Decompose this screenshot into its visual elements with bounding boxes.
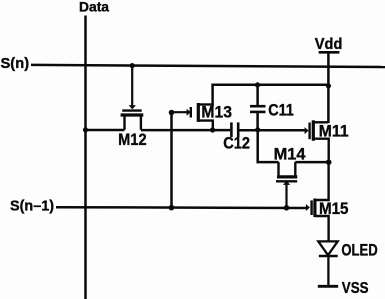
junction dot Data and node-A [83,127,88,132]
wire C11 bottom plate to node-C [256,113,259,130]
transistor M14 [276,162,297,208]
wire C11 top plate to top wire [256,85,259,105]
capacitor C12 [231,122,238,137]
diode OLED [318,241,337,287]
junction dot C11 top on top wire [255,82,260,87]
junction dot M14 gate on S(n-1) [284,205,290,211]
junction dot M13 gate wire start [169,110,175,116]
svg-text:Vdd: Vdd [315,36,343,53]
power symbol VSS [318,285,338,288]
transistor M13 [172,103,213,130]
transistor M12 [121,66,144,130]
power symbol Vdd [319,51,340,54]
wire node-C down and across to M14 left lead [258,130,279,162]
junction dot top wire on Vdd rail [326,83,331,88]
junction dot M11 M14 M15 common node [326,159,332,165]
svg-text:C11: C11 [268,102,294,120]
transistor M15 [306,162,329,241]
svg-text:S(n): S(n) [1,55,30,72]
svg-text:S(n–1): S(n–1) [10,198,54,215]
svg-text:C12: C12 [223,135,250,153]
wire M14 right lead to rail junction [295,161,328,164]
svg-text:VSS: VSS [342,280,369,297]
wire node-A segment Data to M12 drain [86,129,125,132]
capacitor C11 [250,106,266,112]
svg-text:OLED: OLED [341,241,377,259]
svg-text:M11: M11 [319,123,349,141]
svg-text:M15: M15 [319,200,349,218]
svg-text:M14: M14 [274,145,307,163]
wire M13 drain to Vdd rail (top wire) [213,85,329,107]
junction dot M12 gate on S(n) [130,63,135,68]
transistor M11 [305,120,329,162]
junction dot M13 source on node-B [210,127,215,132]
junction dot M13 gate wire on S(n-1) [169,205,175,211]
wire Vdd rail down to M11 drain [327,53,330,123]
wire M13 gate down to S(n-1) [170,113,173,208]
wire S(n) horizontal line [31,65,385,67]
wire Data vertical line [84,16,87,299]
wire OLED cathode to VSS [327,257,329,287]
svg-text:M13: M13 [201,104,232,122]
wire node-B segment M12 source to C12 left plate [141,129,230,132]
svg-text:M12: M12 [118,131,147,149]
svg-text:Data: Data [79,0,109,14]
junction dot C11 bottom node-C [255,127,260,132]
wire S(n-1) horizontal line [56,206,307,209]
wire node-C segment C12 right plate to M11 gate [239,129,306,132]
